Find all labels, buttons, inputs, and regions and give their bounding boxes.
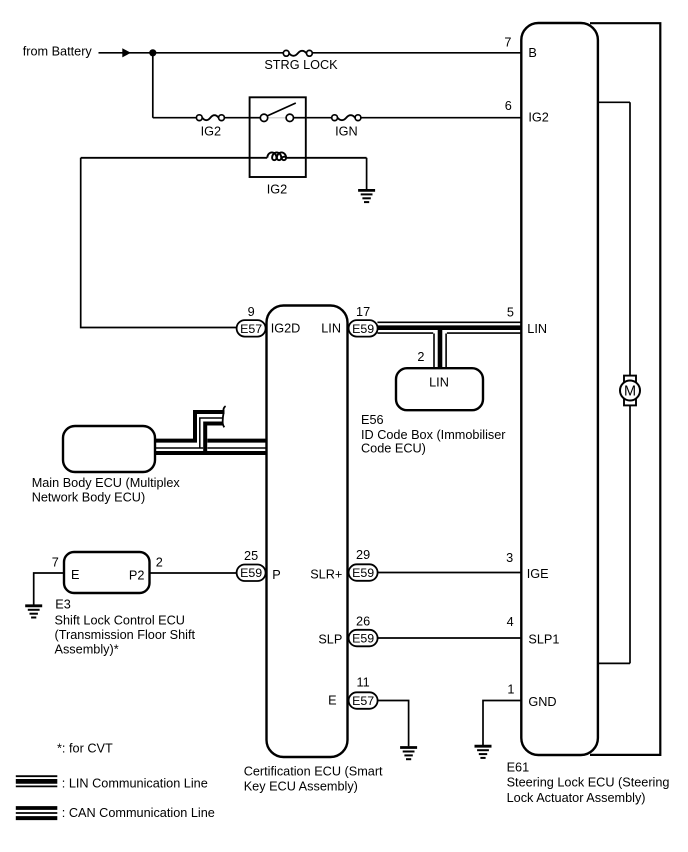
svg-text:E59: E59 — [352, 632, 374, 646]
svg-text:E57: E57 — [352, 694, 374, 708]
connector E57 pin 11 — [349, 675, 378, 709]
wire P2 to E59 — [150, 572, 237, 574]
svg-text:26: 26 — [356, 614, 370, 628]
svg-text:E59: E59 — [352, 566, 374, 580]
svg-text:SLP1: SLP1 — [528, 632, 559, 646]
svg-text:IGN: IGN — [335, 124, 358, 138]
svg-text:E61: E61 — [507, 761, 530, 775]
svg-text:LIN: LIN — [429, 376, 449, 390]
inner rect motor loop — [597, 102, 630, 663]
svg-text:Key ECU Assembly): Key ECU Assembly) — [244, 780, 358, 794]
svg-text:M: M — [624, 384, 636, 400]
wire SLR+ row — [378, 572, 522, 574]
wire IGN row — [307, 117, 522, 119]
svg-text:4: 4 — [507, 615, 514, 629]
svg-text:Assembly)*: Assembly)* — [55, 643, 119, 657]
svg-text:IG2: IG2 — [201, 125, 221, 139]
svg-text:E3: E3 — [55, 598, 71, 612]
node junction — [149, 49, 156, 56]
svg-text:Lock Actuator Assembly): Lock Actuator Assembly) — [507, 791, 646, 805]
svg-text:2: 2 — [156, 556, 163, 570]
svg-text:: CAN Communication Line: : CAN Communication Line — [62, 806, 215, 820]
svg-text:3: 3 — [506, 551, 513, 565]
LIN communication line (pin17 to pin5) — [377, 322, 521, 369]
svg-text:: LIN Communication Line: : LIN Communication Line — [62, 776, 208, 790]
wire coil to IG2D — [81, 158, 237, 328]
fuse IG2 — [196, 115, 224, 121]
ground (GND) — [475, 746, 492, 758]
svg-text:IGE: IGE — [527, 567, 549, 581]
svg-text:IG2: IG2 — [267, 182, 287, 196]
svg-text:(Transmission Floor Shift: (Transmission Floor Shift — [55, 628, 196, 642]
svg-text:Certification ECU (Smart: Certification ECU (Smart — [244, 765, 383, 779]
svg-text:B: B — [528, 46, 536, 60]
svg-text:IG2: IG2 — [528, 111, 548, 125]
wire IG2 row — [153, 117, 250, 119]
legend LIN — [16, 776, 58, 786]
fuse IGN — [332, 115, 361, 121]
certification ECU box — [267, 306, 348, 758]
svg-text:Network Body ECU): Network Body ECU) — [32, 491, 146, 505]
wire relay to ground — [366, 158, 368, 190]
svg-text:from Battery: from Battery — [23, 45, 93, 59]
svg-text:11: 11 — [357, 675, 370, 689]
svg-text:P2: P2 — [129, 568, 145, 582]
shift lock control ECU E3 — [64, 552, 150, 593]
ground (E57) — [400, 748, 417, 760]
svg-text:E59: E59 — [240, 566, 262, 580]
legend CAN — [16, 808, 58, 818]
svg-text:1: 1 — [507, 683, 514, 697]
svg-text:GND: GND — [528, 695, 556, 709]
wire E pin 11 to ground — [378, 701, 409, 747]
svg-text:E: E — [71, 568, 79, 582]
svg-text:7: 7 — [52, 556, 59, 570]
relay coil — [81, 152, 367, 160]
svg-text:E: E — [328, 694, 336, 708]
svg-text:7: 7 — [504, 35, 511, 49]
svg-text:5: 5 — [507, 305, 514, 319]
motor M1 — [620, 376, 640, 406]
steering lock ECU box E61 — [521, 23, 598, 755]
svg-text:E57: E57 — [240, 322, 262, 336]
svg-text:SLR+: SLR+ — [310, 568, 342, 582]
connector E59 pin 29 — [349, 548, 378, 581]
fuse STRG LOCK — [283, 50, 312, 56]
branch to ID code box — [438, 329, 443, 369]
torn end squiggle — [223, 406, 226, 427]
relay IG2 box — [250, 97, 306, 177]
svg-text:6: 6 — [505, 99, 512, 113]
outer rect extension — [590, 23, 660, 755]
svg-text:STRG LOCK: STRG LOCK — [264, 58, 338, 72]
svg-text:E59: E59 — [352, 322, 374, 336]
svg-text:IG2D: IG2D — [271, 321, 301, 335]
svg-text:2: 2 — [417, 350, 424, 364]
connector E59 pin 26 — [349, 614, 378, 646]
ground (shift lock) — [25, 606, 42, 618]
svg-text:29: 29 — [356, 548, 370, 562]
wire SLP row — [378, 637, 522, 639]
svg-text:9: 9 — [248, 305, 255, 319]
svg-text:LIN: LIN — [321, 321, 341, 335]
svg-text:Main Body ECU (Multiplex: Main Body ECU (Multiplex — [32, 476, 181, 490]
connector E59 pin 25 — [237, 549, 266, 581]
svg-text:E56: E56 — [361, 413, 384, 427]
ID code box E56 — [396, 368, 483, 410]
arrow — [122, 48, 131, 57]
wire from battery — [99, 52, 523, 54]
svg-text:Steering Lock ECU (Steering: Steering Lock ECU (Steering — [507, 776, 670, 790]
svg-text:Shift Lock Control ECU: Shift Lock Control ECU — [55, 613, 185, 627]
svg-text:LIN: LIN — [527, 322, 547, 336]
connector E59 pin 17 — [349, 305, 378, 337]
svg-text:SLP: SLP — [318, 632, 342, 646]
connector E57 pin 9 — [237, 305, 266, 337]
wire E to ground — [34, 573, 64, 605]
wire GND row — [483, 701, 522, 746]
ground (relay) — [358, 190, 375, 202]
svg-text:*: for CVT: *: for CVT — [57, 742, 113, 756]
svg-text:25: 25 — [244, 549, 258, 563]
relay switch — [250, 103, 307, 122]
wire junction down — [152, 53, 154, 118]
CAN communication line — [155, 406, 267, 455]
main body ECU — [63, 426, 155, 472]
svg-text:ID Code Box (Immobiliser: ID Code Box (Immobiliser — [361, 428, 506, 442]
svg-text:17: 17 — [356, 305, 370, 319]
svg-text:Code ECU): Code ECU) — [361, 442, 426, 456]
svg-text:P: P — [272, 568, 280, 582]
